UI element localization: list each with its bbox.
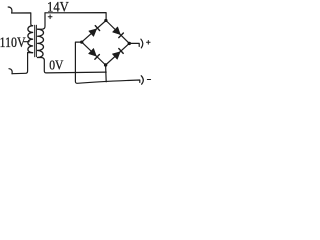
terminal hook + output (141, 39, 143, 48)
transformer primary winding (28, 26, 33, 53)
diode D1 on upper-left edge (89, 26, 100, 37)
node right vertex (128, 42, 131, 45)
svg-text:0V: 0V (49, 58, 63, 73)
wire primary bottom (12, 53, 33, 74)
diode D2 on upper-right edge (113, 27, 124, 38)
node bottom vertex (104, 63, 107, 66)
transformer secondary winding (38, 29, 44, 57)
wire 14V top run (45, 13, 106, 20)
bridge edge lower-right (106, 43, 130, 65)
bridge edge upper-right (106, 21, 129, 44)
wire primary top (12, 13, 33, 26)
transformer core (35, 25, 37, 57)
terminal hook top-left (8, 7, 12, 13)
lead dash from 110V label to winding (24, 41, 29, 43)
bridge edge upper-left (82, 21, 106, 43)
node left vertex (80, 40, 83, 43)
wire right vertex to + terminal (129, 43, 139, 46)
minus sign - output (147, 79, 150, 81)
wire left vertex to 0V rail (75, 42, 139, 83)
svg-text:110V: 110V (0, 35, 26, 51)
terminal hook - output (141, 76, 143, 85)
plus sign + output (147, 41, 151, 45)
plus sign at 14V (48, 15, 52, 19)
terminal hook bottom-left (9, 69, 12, 74)
wire bottom vertex to - terminal (105, 65, 108, 82)
wire secondary top to 14V line (38, 13, 45, 29)
diode D4 on lower-right edge (113, 49, 124, 60)
node top vertex (104, 19, 107, 22)
bridge edge lower-left (82, 42, 106, 65)
diode D3 on lower-left edge (89, 49, 100, 60)
wire secondary bottom to 0V (38, 58, 107, 73)
